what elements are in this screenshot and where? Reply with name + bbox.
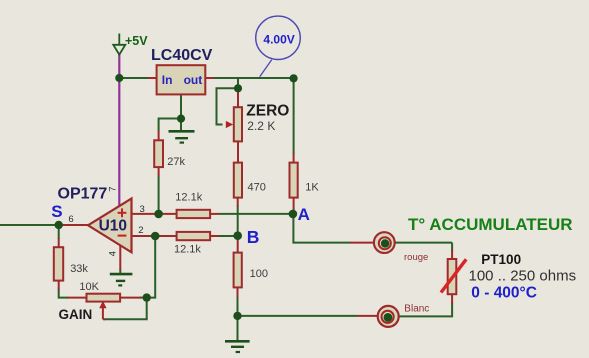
svg-text:4: 4 bbox=[108, 251, 119, 256]
svg-text:1K: 1K bbox=[305, 181, 319, 193]
svg-text:12.1k: 12.1k bbox=[174, 244, 201, 256]
svg-text:PT100: PT100 bbox=[481, 252, 521, 267]
svg-text:3: 3 bbox=[140, 204, 145, 215]
svg-text:100 .. 250 ohms: 100 .. 250 ohms bbox=[469, 268, 577, 285]
svg-text:LC40CV: LC40CV bbox=[151, 47, 213, 64]
svg-text:2: 2 bbox=[138, 225, 143, 236]
svg-text:4.00V: 4.00V bbox=[263, 32, 294, 46]
svg-text:B: B bbox=[247, 227, 260, 247]
svg-text:+5V: +5V bbox=[125, 34, 148, 48]
svg-text:10K: 10K bbox=[79, 281, 99, 293]
svg-text:7: 7 bbox=[107, 187, 118, 192]
svg-text:Blanc: Blanc bbox=[404, 304, 429, 315]
svg-text:ZERO: ZERO bbox=[246, 102, 289, 119]
svg-text:0 - 400°C: 0 - 400°C bbox=[471, 284, 537, 301]
svg-text:rouge: rouge bbox=[404, 252, 428, 263]
svg-text:U10: U10 bbox=[99, 218, 127, 235]
svg-text:S: S bbox=[51, 202, 62, 221]
svg-text:2.2 K: 2.2 K bbox=[247, 119, 275, 133]
svg-text:33k: 33k bbox=[70, 263, 88, 275]
svg-text:GAIN: GAIN bbox=[59, 307, 93, 322]
svg-text:OP177: OP177 bbox=[58, 186, 108, 203]
svg-text:27k: 27k bbox=[167, 156, 185, 168]
svg-text:6: 6 bbox=[68, 214, 73, 225]
svg-text:470: 470 bbox=[248, 181, 266, 193]
svg-text:In: In bbox=[162, 73, 173, 87]
svg-text:A: A bbox=[298, 205, 310, 224]
svg-text:out: out bbox=[184, 73, 203, 87]
svg-text:12.1k: 12.1k bbox=[175, 192, 202, 204]
svg-text:T° ACCUMULATEUR: T° ACCUMULATEUR bbox=[408, 215, 573, 234]
svg-text:100: 100 bbox=[250, 268, 268, 280]
